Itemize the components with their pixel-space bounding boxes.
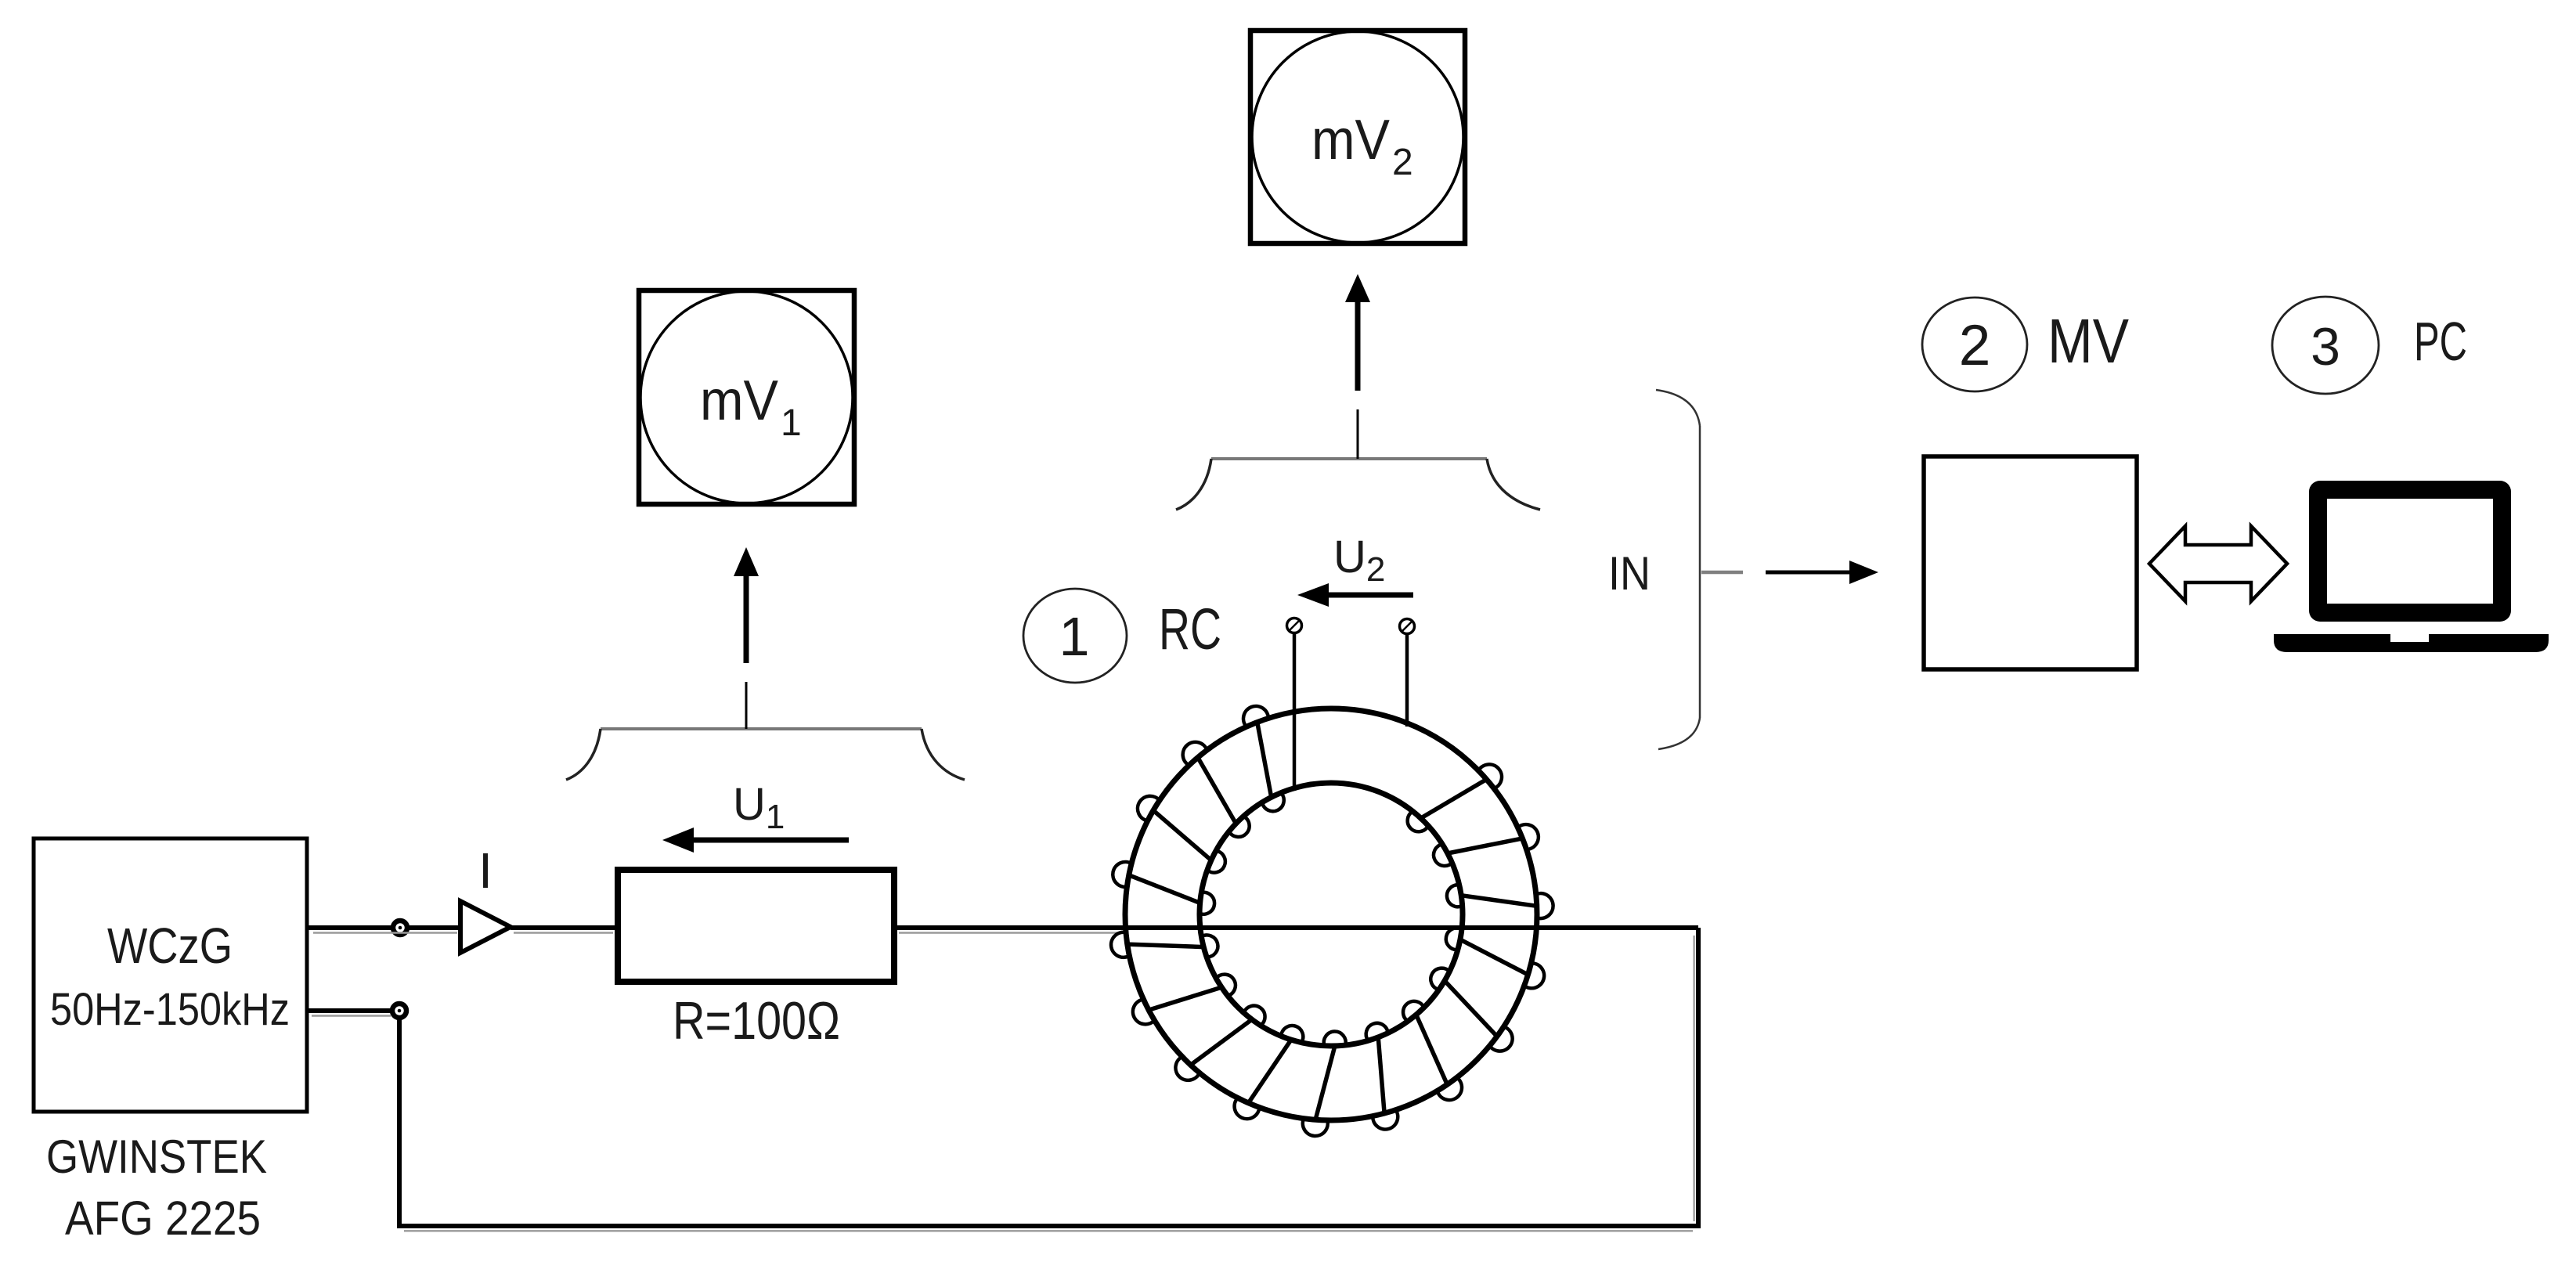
amplifier I (460, 842, 511, 953)
svg-text:1: 1 (781, 402, 802, 444)
svg-text:AFG 2225: AFG 2225 (65, 1192, 261, 1245)
mV2 meter (1250, 31, 1465, 243)
brace above U2 (1176, 459, 1540, 510)
main wire through toroid (894, 925, 1698, 930)
svg-text:R=100Ω: R=100Ω (673, 991, 840, 1051)
laptop PC icon (2274, 481, 2549, 652)
gray stub from bracket (1701, 571, 1743, 575)
wire shadow artifacts (312, 933, 1694, 1231)
resistor R (618, 870, 894, 1051)
wire gen upper output (307, 925, 460, 930)
MV box (1924, 456, 2137, 669)
svg-text:RC: RC (1159, 597, 1221, 662)
toroid lead right (1405, 634, 1409, 727)
double arrow MV-PC (2149, 526, 2287, 601)
svg-text:1: 1 (1059, 606, 1090, 667)
svg-text:mV: mV (700, 370, 778, 432)
label circled 3 (2272, 297, 2379, 394)
terminal upper (393, 921, 407, 935)
svg-text:MV: MV (2047, 306, 2130, 376)
terminal lower (392, 1004, 406, 1018)
arrow to MV (1766, 561, 1878, 584)
svg-text:50Hz-150kHz: 50Hz-150kHz (50, 984, 290, 1035)
dashed link brace to mV1 arrow (745, 682, 748, 729)
arrow to mV1 (734, 547, 759, 663)
svg-text:2: 2 (1392, 142, 1413, 183)
toroid winding turns (1111, 706, 1553, 1136)
toroid outer ring (1125, 709, 1537, 1120)
bracket IN (1656, 390, 1700, 749)
U1 arrow (voltage direction) (662, 828, 849, 853)
dashed link brace to mV2 arrow (1357, 409, 1359, 459)
arrow to mV2 (1345, 274, 1370, 391)
svg-text:3: 3 (2311, 317, 2340, 377)
svg-text:WCzG: WCzG (107, 918, 233, 974)
svg-text:PC: PC (2414, 311, 2467, 372)
generator box WCzG (GWINSTEK AFG 2225) (34, 838, 307, 1112)
toroid terminal left (1287, 618, 1302, 633)
label circled 1 (1023, 589, 1127, 683)
svg-text:mV: mV (1311, 109, 1390, 171)
wire amp to resistor (511, 925, 618, 930)
U2 arrow (1297, 583, 1413, 607)
brace under mV1 arrow (566, 729, 965, 780)
return wire (bottom loop) (307, 928, 1698, 1226)
toroid lead left (1293, 633, 1297, 791)
svg-text:2: 2 (1959, 314, 1991, 377)
label circled 2 (1922, 297, 2027, 391)
svg-text:GWINSTEK: GWINSTEK (46, 1130, 267, 1183)
svg-text:IN: IN (1608, 547, 1651, 600)
svg-text:I: I (478, 842, 492, 899)
mV1 meter (639, 290, 854, 504)
toroid terminal right (1400, 619, 1415, 634)
toroid inner ring (1200, 783, 1463, 1046)
